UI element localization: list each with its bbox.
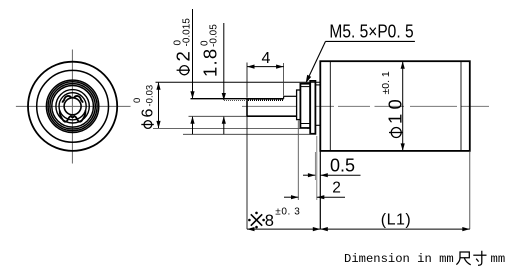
kanji shaku bbox=[456, 252, 470, 265]
front view centerlines bbox=[16, 50, 131, 164]
label phi2 with tolerance (rotated) bbox=[173, 18, 194, 75]
dimension φ6 bbox=[158, 83, 160, 128]
label phi6 with tolerance (rotated) bbox=[132, 85, 156, 129]
flat edge extension (dotted) bbox=[224, 100, 247, 102]
extension line flange top (phi6) bbox=[156, 81, 321, 83]
flange circle (front view, phi6) bbox=[46, 80, 98, 132]
svg-text:(L1): (L1) bbox=[381, 212, 411, 229]
svg-text:Dimension in mm: Dimension in mm bbox=[344, 252, 454, 266]
svg-text:0: 0 bbox=[132, 98, 143, 103]
E-ring feet (front view) bbox=[60, 110, 86, 121]
dimension φ2 bbox=[192, 9, 194, 134]
threaded bushing M5.5 bbox=[300, 84, 310, 128]
dimension phi10 bbox=[402, 62, 404, 151]
extension line flange bottom (phi6) bbox=[183, 133, 314, 135]
svg-text:6: 6 bbox=[139, 109, 156, 118]
dimension 4 bbox=[247, 66, 284, 68]
body left seam bbox=[329, 61, 331, 151]
reference mark kome bbox=[251, 214, 262, 225]
bearing circle (front view) bbox=[59, 93, 86, 120]
extension line shaft tip upper bbox=[246, 63, 248, 98]
shaft (side view) bbox=[247, 96, 297, 117]
extension line collar front bbox=[297, 121, 299, 201]
extension line body rear bbox=[469, 152, 471, 229]
svg-text:2: 2 bbox=[173, 51, 194, 61]
svg-text:-0.03: -0.03 bbox=[144, 85, 155, 107]
thread crest circle (front view, M5.5) bbox=[48, 82, 97, 131]
kanji sun bbox=[473, 251, 486, 265]
body front face / extension line bbox=[319, 72, 321, 229]
dimension 2 bbox=[284, 196, 345, 198]
extension line shaft tip lower bbox=[246, 117, 248, 229]
bushing pilot circle (front view) bbox=[52, 86, 94, 128]
end cap circle (front view) bbox=[37, 70, 109, 142]
svg-text:4: 4 bbox=[262, 50, 271, 67]
dimension 0.5 bbox=[303, 174, 361, 176]
extension line shaft bottom bbox=[189, 115, 248, 117]
thread lines bbox=[301, 86, 310, 88]
thread root circle (front view) bbox=[50, 84, 95, 129]
svg-text:±0. 1: ±0. 1 bbox=[380, 71, 392, 94]
svg-text:0.5: 0.5 bbox=[330, 155, 355, 175]
E-ring ears (front view) bbox=[62, 96, 71, 103]
boss between flange and body bbox=[315, 84, 320, 86]
side view centerline bbox=[242, 105, 489, 107]
flange φ6 (side view) bbox=[310, 81, 315, 134]
svg-text:10: 10 bbox=[385, 95, 406, 124]
svg-text:±0. 3: ±0. 3 bbox=[275, 207, 300, 218]
svg-text:1.8: 1.8 bbox=[200, 48, 221, 77]
extension line flat end bbox=[283, 63, 285, 96]
leader M5.5 bbox=[326, 40, 415, 42]
dimension 8 (shaft length) bbox=[247, 228, 320, 230]
dimension 1.8 bbox=[223, 23, 225, 134]
body right seam bbox=[460, 61, 462, 151]
shaft circle (front view, phi2) bbox=[64, 98, 81, 115]
dimension L1 bbox=[320, 228, 470, 230]
shaft top edge extension bbox=[191, 98, 248, 100]
svg-text:0: 0 bbox=[173, 40, 184, 46]
label phi10 with tolerance (rotated) bbox=[380, 71, 406, 137]
svg-text:8: 8 bbox=[265, 212, 274, 230]
svg-text:0: 0 bbox=[200, 40, 211, 46]
label 1.8 with tolerance (rotated) bbox=[200, 24, 221, 77]
motor body circle (front view) bbox=[28, 62, 117, 151]
washer circle (front view) bbox=[56, 90, 89, 123]
extension line flange rear upper bbox=[314, 152, 316, 180]
svg-text:2: 2 bbox=[332, 180, 341, 197]
svg-text:mm: mm bbox=[491, 252, 506, 266]
extension line flange rear lower bbox=[316, 136, 318, 200]
motor body (side view) bbox=[320, 61, 470, 151]
shaft collar bbox=[297, 90, 301, 120]
extension line bushing bottom bbox=[153, 127, 307, 129]
svg-text:M5. 5×P0. 5: M5. 5×P0. 5 bbox=[329, 21, 413, 42]
